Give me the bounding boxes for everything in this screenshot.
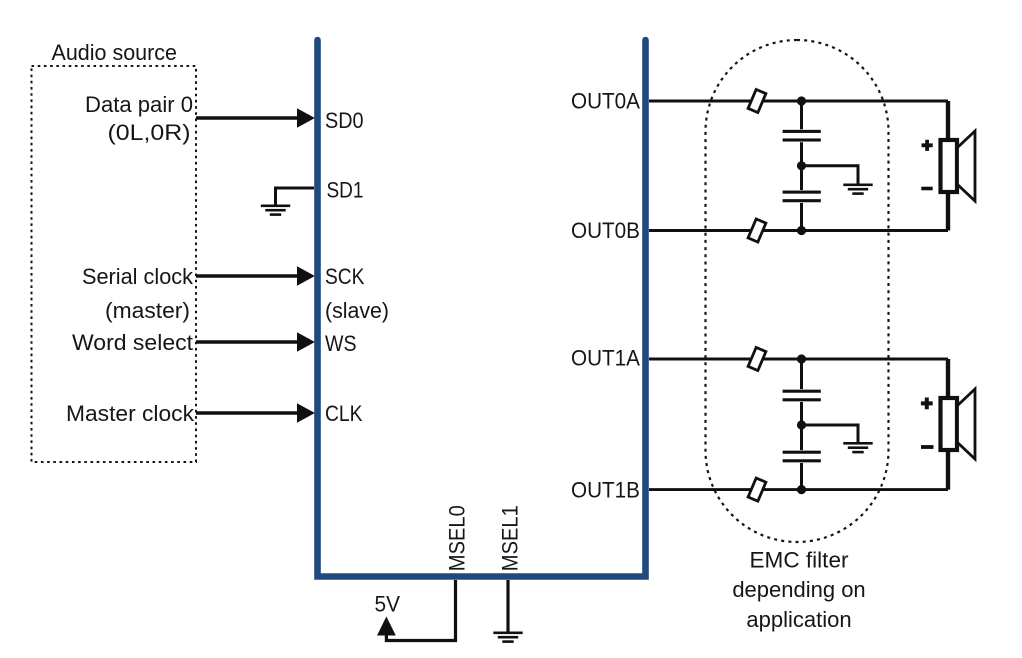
wire mid to ground OUT1 [802, 425, 859, 443]
speaker 1 driver [941, 398, 958, 450]
wire cap chain OUT1 [800, 359, 803, 490]
svg-text:OUT0B: OUT0B [571, 218, 640, 243]
svg-text:OUT1A: OUT1A [571, 346, 640, 371]
svg-text:(master): (master) [105, 298, 190, 323]
wire SD1 to ground [276, 188, 315, 206]
audio source dashed box [32, 66, 197, 462]
ground at MSEL1 [493, 632, 522, 643]
speaker 1 connection wires [946, 359, 950, 490]
speaker 1 cone [958, 389, 976, 459]
junction dot mid OUT1 [797, 420, 806, 429]
svg-text:CLK: CLK [325, 401, 363, 426]
svg-text:(slave): (slave) [325, 298, 389, 323]
wire MSEL0 to 5V [386, 580, 455, 641]
wire OUT0A [649, 100, 948, 103]
svg-text:Master clock: Master clock [66, 401, 195, 426]
svg-text:SD0: SD0 [325, 108, 364, 133]
speaker 0 minus [921, 187, 932, 191]
wire mid to ground OUT0 [802, 166, 859, 184]
speaker 0 connection wires [946, 101, 950, 231]
svg-text:Audio source: Audio source [52, 40, 178, 65]
junction dot OUT0B [797, 226, 806, 235]
capacitor C1 (mask gap) [781, 129, 823, 142]
speaker 0 plus [922, 140, 933, 151]
svg-text:EMC filter: EMC filter [750, 548, 849, 573]
svg-text:SCK: SCK [325, 264, 365, 289]
junction dot mid OUT0 [797, 161, 806, 170]
svg-text:OUT1B: OUT1B [571, 478, 640, 503]
capacitor C4 (mask gap) [781, 450, 823, 463]
5V supply arrow [377, 617, 396, 636]
svg-text:(0L,0R): (0L,0R) [108, 120, 191, 145]
capacitor C3 (mask gap) [781, 389, 823, 402]
svg-text:MSEL1: MSEL1 [498, 505, 523, 571]
wire arrow WS [196, 332, 315, 352]
svg-text:SD1: SD1 [327, 178, 364, 203]
svg-text:Serial clock: Serial clock [82, 264, 194, 289]
wire OUT1B [649, 488, 948, 491]
svg-text:application: application [746, 607, 851, 632]
wire arrow SCK [196, 266, 315, 286]
ferrite bead on OUT0A [748, 89, 766, 112]
wire cap chain OUT0 [800, 101, 803, 231]
speaker 0 driver [941, 140, 958, 192]
speaker 1 plus [921, 398, 933, 410]
EMC filter dotted capsule [706, 40, 889, 542]
junction dot OUT0A [797, 96, 806, 105]
wire arrow SD0 [196, 108, 315, 128]
junction dot OUT1A [797, 354, 806, 363]
ferrite bead on OUT0B [748, 219, 766, 242]
capacitor C2 (mask gap) [781, 190, 823, 203]
ground at OUT1 filter [843, 442, 872, 453]
svg-text:5V: 5V [375, 592, 401, 617]
svg-text:MSEL0: MSEL0 [445, 505, 470, 571]
wire OUT1A [649, 358, 948, 361]
ferrite bead on OUT1B [748, 478, 766, 501]
ferrite bead on OUT1A [748, 347, 766, 370]
wire MSEL1 to ground [506, 580, 509, 632]
wire OUT0B [649, 229, 948, 232]
svg-text:depending on: depending on [732, 577, 865, 602]
svg-text:Data pair 0: Data pair 0 [85, 92, 193, 117]
ground at SD1 [261, 205, 290, 216]
ground at OUT0 filter [843, 184, 872, 195]
speaker 1 minus [921, 445, 934, 449]
svg-text:WS: WS [325, 331, 357, 356]
speaker 0 cone [958, 131, 976, 201]
wire arrow CLK [196, 403, 315, 423]
junction dot OUT1B [797, 485, 806, 494]
svg-text:OUT0A: OUT0A [571, 89, 640, 114]
svg-text:Word select: Word select [72, 330, 193, 355]
amplifier U-shaped outline [318, 40, 646, 577]
